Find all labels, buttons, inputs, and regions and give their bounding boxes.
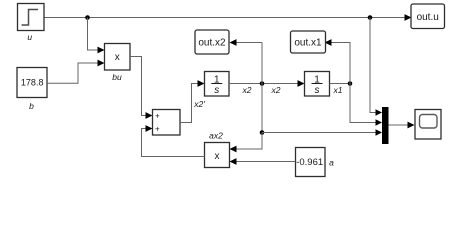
wire: u branch down into mux input 1 — [370, 18, 382, 116]
svg-text:s: s — [315, 85, 320, 96]
wire: product ax2 output to sum input 2 — [142, 125, 205, 156]
svg-text:out.u: out.u — [417, 12, 439, 23]
wire: step u output to out.u (with arrowhead) — [44, 14, 412, 21]
svg-text:out.x2: out.x2 — [198, 38, 226, 49]
mux block — [382, 107, 389, 144]
product block ax2 — [205, 143, 230, 168]
scope block — [415, 110, 441, 140]
wire: x2 junction down to lower node — [261, 84, 263, 133]
junction: node x1 — [348, 81, 353, 86]
constant block a (-0.961) — [296, 148, 326, 177]
svg-text:-0.961: -0.961 — [296, 157, 323, 168]
sum block — [153, 110, 181, 136]
svg-text:x2: x2 — [271, 85, 281, 95]
junction: u branch to mux — [368, 15, 373, 20]
wire: integrator x1 output to x1 junction — [330, 83, 351, 85]
outport block out.u — [411, 4, 445, 29]
wire: x2 down and left into product ax2 input 1 — [230, 133, 263, 153]
svg-text:s: s — [214, 85, 219, 96]
svg-text:u: u — [27, 32, 32, 42]
svg-text:x1: x1 — [333, 85, 343, 95]
svg-text:178.8: 178.8 — [21, 78, 44, 88]
outport block out.x2 — [195, 30, 229, 54]
svg-text:bu: bu — [112, 72, 122, 82]
junction: x2 branch node (lower) — [260, 130, 265, 135]
step source block — [18, 4, 45, 31]
wire: constant b to product bu input 2 — [47, 60, 105, 84]
junction: node x2 — [260, 81, 265, 86]
wire: constant a to product ax2 input 2 — [230, 158, 296, 165]
svg-text:x: x — [215, 151, 220, 162]
svg-text:x2': x2' — [193, 99, 205, 109]
outport block out.x1 — [291, 31, 326, 53]
wire: x2 to mux input 3 — [262, 129, 382, 136]
constant block b (178.8) — [17, 68, 47, 98]
wire: mux output to scope — [389, 122, 415, 129]
svg-text:x: x — [115, 52, 120, 63]
wire: x1 junction down to mux input 2 — [350, 84, 382, 126]
wire: sum output to integrator x2 input — [180, 80, 205, 122]
svg-text:+: + — [155, 112, 160, 121]
wire: integrator x2 output to integrator x1 input — [229, 80, 305, 87]
wire: u branch down into product bu input 1 — [88, 18, 105, 54]
wire: x2 junction up to out.x2 — [230, 39, 263, 83]
svg-text:ax2: ax2 — [209, 131, 223, 141]
svg-text:b: b — [29, 101, 34, 111]
wire: x1 junction up and left into out.x1 — [325, 39, 351, 83]
svg-text:a: a — [329, 158, 334, 168]
wire: product bu output to sum input 1 — [130, 57, 153, 119]
product block bu — [105, 44, 131, 71]
integrator block x1 (1/s) — [305, 72, 330, 97]
svg-text:+: + — [155, 125, 160, 134]
svg-text:x2: x2 — [242, 85, 252, 95]
junction: u branch to product bu — [85, 15, 90, 20]
svg-text:out.x1: out.x1 — [294, 38, 322, 49]
integrator block x2 (1/s) — [205, 72, 230, 97]
